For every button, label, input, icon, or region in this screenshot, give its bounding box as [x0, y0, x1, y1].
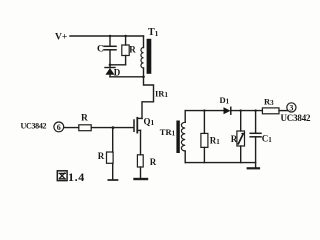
svg-text:R: R	[231, 134, 238, 144]
transformer T1 core	[147, 39, 152, 74]
svg-text:D1: D1	[220, 95, 230, 106]
resistor R (pulldown)	[98, 151, 113, 179]
label 图1.4	[57, 170, 85, 184]
svg-text:1.4: 1.4	[68, 170, 85, 184]
svg-text:R: R	[129, 45, 136, 55]
wire clamp to primary bottom	[110, 76, 144, 78]
svg-text:UC3842: UC3842	[21, 122, 47, 131]
wire pin6 to R	[64, 127, 79, 129]
ground (source)	[135, 178, 148, 180]
wire step to drain (TR1 primary)	[142, 77, 154, 119]
resistor R (adjustable)	[231, 131, 245, 163]
node gate junction	[112, 126, 115, 129]
svg-text:IR1: IR1	[155, 89, 168, 100]
ground (pulldown)	[108, 179, 117, 181]
transformer TR1 secondary winding	[181, 111, 185, 163]
capacitor C	[97, 36, 116, 65]
svg-text:T1: T1	[148, 27, 159, 38]
svg-text:R3: R3	[264, 97, 274, 108]
capacitor C1	[250, 111, 272, 168]
svg-text:R: R	[81, 114, 88, 124]
diode D1	[220, 95, 231, 114]
wire secondary top rail	[185, 110, 224, 112]
resistor R1	[201, 133, 220, 162]
MOSFET Q1	[134, 117, 155, 133]
svg-text:R1: R1	[210, 136, 221, 147]
resistor R (clamp)	[122, 36, 137, 65]
wire R1 top	[203, 111, 205, 134]
svg-text:R: R	[150, 157, 157, 167]
node R1 top	[203, 109, 205, 111]
diode D	[105, 65, 121, 78]
svg-text:D: D	[114, 68, 121, 78]
svg-text:V+: V+	[55, 33, 67, 43]
pin 6 circle	[54, 122, 64, 132]
wire source	[140, 130, 142, 154]
resistor R (source)	[137, 155, 156, 178]
transformer TR1 core	[176, 121, 179, 154]
ground (secondary)	[248, 167, 259, 169]
pin 3 circle	[287, 103, 296, 113]
svg-text:6: 6	[57, 123, 61, 132]
wire V+ rail	[70, 35, 144, 37]
wire pulldown	[112, 128, 114, 152]
resistor R (gate series)	[79, 114, 91, 131]
svg-text:TR1: TR1	[160, 127, 176, 138]
resistor R3	[262, 97, 279, 114]
svg-text:UC3842: UC3842	[281, 113, 312, 123]
svg-text:3: 3	[289, 103, 293, 112]
wire gate	[91, 127, 134, 129]
wire adj R top	[240, 111, 242, 131]
svg-text:R: R	[98, 151, 105, 161]
node adj R top	[240, 109, 242, 111]
svg-text:Q1: Q1	[144, 117, 155, 128]
node C top	[109, 35, 111, 37]
svg-text:C1: C1	[262, 134, 273, 145]
wire secondary bottom rail	[185, 162, 255, 164]
node C1 top	[254, 109, 256, 111]
wire R3 to pin3	[279, 110, 288, 112]
transformer T1 primary winding	[141, 36, 144, 77]
svg-text:C: C	[97, 45, 104, 55]
node clamp junction	[109, 64, 112, 67]
wire after D1	[231, 110, 263, 112]
node primary bottom	[142, 76, 145, 79]
node R top	[124, 35, 126, 37]
wire clamp bottom	[110, 64, 126, 66]
